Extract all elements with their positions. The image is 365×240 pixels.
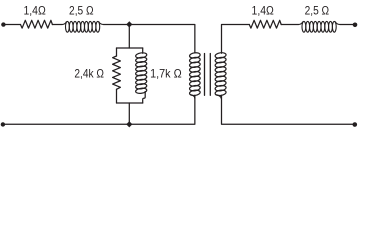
wire shunt bottom bar [117, 102, 143, 104]
node B junction dot [126, 121, 132, 127]
wire L1 to node A [103, 24, 129, 26]
wire shunt right branch bottom [143, 92, 146, 104]
node terminal bottom-left [1, 122, 5, 126]
inductor L3 1,7k ohm (vertical) [135, 52, 147, 94]
wire top-left lead [3, 24, 20, 26]
wire shunt left branch top [116, 48, 118, 56]
resistor R1 1,4 ohm [21, 20, 53, 28]
svg-text:1,7k Ω: 1,7k Ω [150, 68, 182, 81]
resistor R3 2,4k ohm (vertical) [113, 56, 121, 89]
svg-text:1,4Ω: 1,4Ω [23, 4, 46, 17]
node terminal top-right [353, 23, 358, 28]
node A junction dot [126, 21, 132, 27]
wire shunt top bar [117, 47, 143, 49]
svg-text:2,5 Ω: 2,5 Ω [305, 5, 330, 18]
inductor L2 2,5 ohm [299, 21, 340, 32]
wire L2 to terminal top-right [340, 24, 355, 26]
node terminal bottom-right [353, 122, 358, 127]
wire node A to transformer primary top [129, 25, 195, 54]
wire T1 primary bottom tail [191, 95, 195, 99]
svg-text:2,4k Ω: 2,4k Ω [74, 68, 104, 81]
wire bottom-left [3, 123, 129, 125]
wire T1 secondary bottom tail [217, 95, 222, 99]
svg-text:1,4Ω: 1,4Ω [252, 5, 275, 18]
wire shunt left branch bottom [116, 89, 118, 103]
svg-text:2,5 Ω: 2,5 Ω [69, 4, 94, 17]
wire transformer secondary top [222, 25, 250, 54]
wire shunt right branch top [142, 48, 144, 53]
wire shunt to node B [128, 103, 130, 124]
wire R2 to L2 [281, 24, 298, 26]
wire node B to transformer primary bottom [129, 95, 195, 124]
inductor L1 2,5 ohm [62, 21, 103, 32]
transformer T1 primary winding [189, 52, 200, 96]
wire node A down to shunt [128, 25, 130, 49]
transformer T1 core [205, 54, 211, 96]
resistor R2 1,4 ohm [249, 20, 281, 28]
wire R1 to L1 [52, 24, 62, 26]
node terminal top-left [1, 22, 5, 26]
wire transformer secondary bottom [222, 95, 355, 124]
transformer T1 secondary winding [215, 52, 227, 96]
